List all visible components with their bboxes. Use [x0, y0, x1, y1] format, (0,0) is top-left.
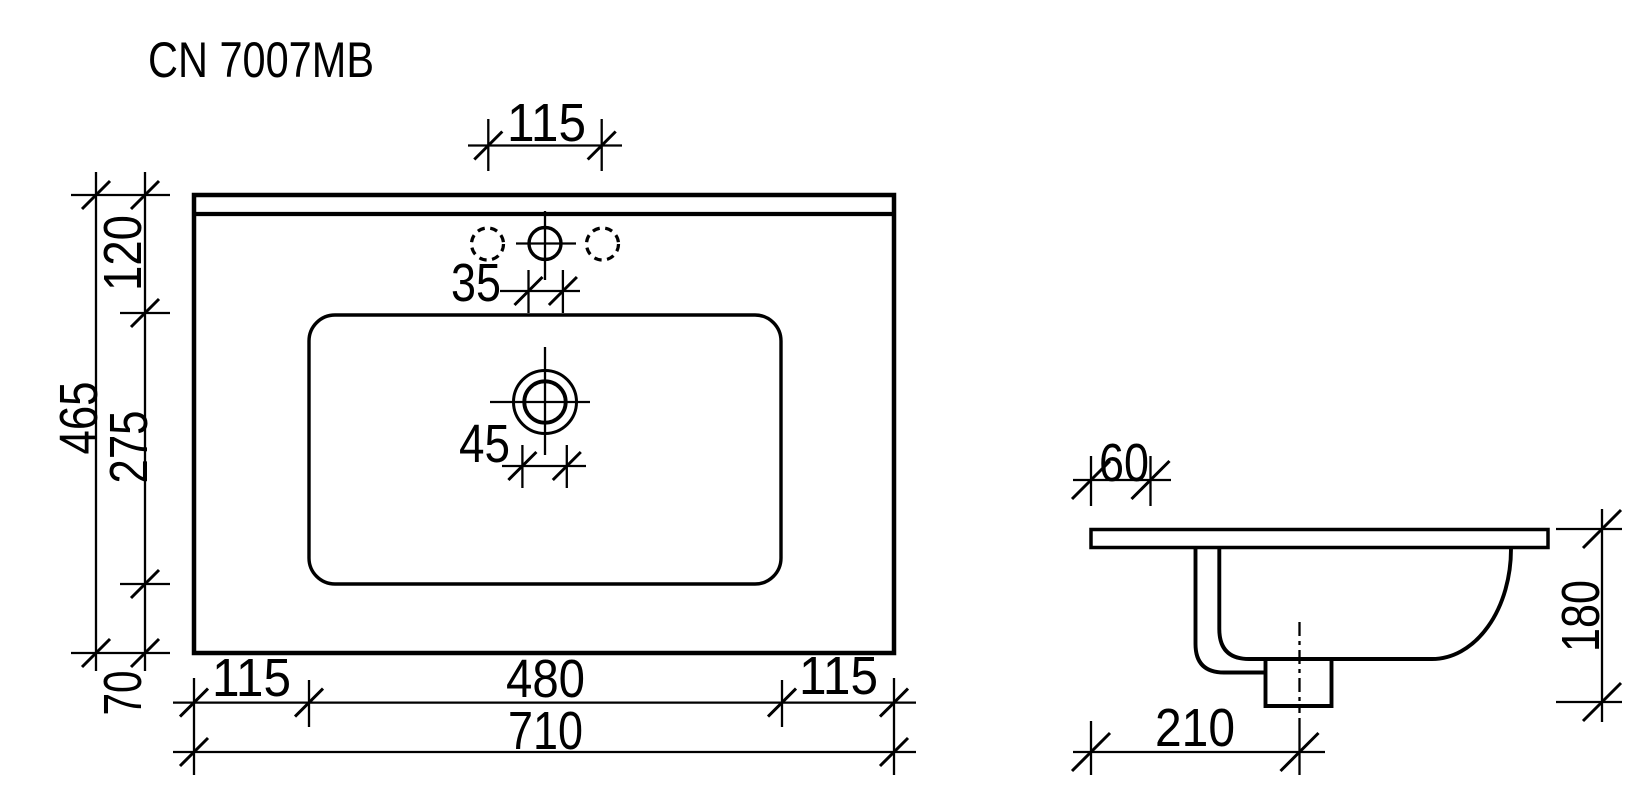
dim 35 right tick	[562, 270, 564, 313]
extension line basin top	[120, 312, 170, 314]
left dim line 465	[95, 172, 97, 671]
svg-text:70: 70	[93, 671, 153, 716]
dim 35 left tick	[527, 270, 529, 313]
svg-text:180: 180	[1551, 580, 1611, 652]
svg-text:210: 210	[1155, 698, 1235, 758]
bottom dim row2 line	[173, 751, 916, 753]
bottom ext right	[893, 678, 895, 775]
basin rounded rect	[309, 315, 781, 584]
drain crosshair horizontal	[490, 401, 590, 403]
faucet crosshair vertical	[544, 211, 546, 280]
dim 60 right tick	[1149, 456, 1151, 506]
dim 210 left ext	[1090, 721, 1092, 775]
dim 210 right tick	[1281, 733, 1319, 771]
dim 210 right ext	[1298, 718, 1300, 775]
svg-text:45: 45	[459, 414, 510, 474]
dim 180 line	[1601, 509, 1603, 722]
row1 tick basin-left	[295, 689, 323, 717]
bottom ext left	[193, 678, 195, 775]
dim 180 ext bottom	[1556, 701, 1622, 703]
side slab	[1091, 530, 1548, 548]
svg-text:35: 35	[451, 253, 501, 313]
plan outline	[194, 195, 894, 653]
tick 70 bottom	[131, 639, 159, 667]
dim 210 line	[1073, 751, 1325, 753]
faucet crosshair horizontal	[516, 242, 576, 244]
row1 tick basin-right	[768, 689, 796, 717]
left dim line 120/275/70	[144, 172, 146, 671]
dim 210 left tick	[1072, 733, 1110, 771]
svg-text:60: 60	[1099, 433, 1149, 493]
side bowl outer wall	[1196, 549, 1266, 673]
faucet hole center	[529, 228, 561, 260]
side drain centerline	[1298, 622, 1300, 713]
svg-text:480: 480	[506, 649, 585, 709]
dim 115 top line	[468, 144, 622, 146]
tick 465 top	[82, 181, 110, 209]
dim 45 right tick	[566, 445, 568, 488]
dim 115 top right tick	[601, 119, 603, 171]
drain crosshair vertical	[544, 347, 546, 455]
dim 115 top left tick	[487, 119, 489, 171]
tick 120 top	[131, 181, 159, 209]
drain outer circle	[514, 371, 577, 434]
dim 180 ext top	[1556, 528, 1622, 530]
faucet hole left dashed	[472, 228, 504, 260]
svg-text:CN 7007MB: CN 7007MB	[148, 32, 374, 88]
faucet hole right dashed	[587, 228, 619, 260]
tick 275 bottom	[131, 570, 159, 598]
svg-text:115: 115	[799, 646, 878, 706]
bottom ext basin-left	[308, 680, 310, 727]
extension line top	[71, 194, 170, 196]
bottom ext basin-right	[781, 680, 783, 727]
dim 180 tick top	[1583, 510, 1621, 548]
svg-text:710: 710	[508, 701, 583, 761]
side drain box	[1266, 659, 1332, 706]
side bowl inner wall and bottom	[1219, 549, 1432, 659]
svg-text:115: 115	[507, 93, 586, 153]
dim 45 line	[502, 465, 586, 467]
side bowl right wall	[1432, 549, 1511, 659]
tick 120 bottom	[131, 299, 159, 327]
dim 60 line	[1073, 479, 1171, 481]
drain inner circle	[524, 381, 565, 422]
tick 465 bottom	[82, 639, 110, 667]
row1 tick left	[180, 689, 208, 717]
bottom dim row1 line	[173, 701, 916, 703]
plan back edge line	[194, 212, 894, 216]
row2 tick right	[880, 738, 908, 766]
dim 45 left tick	[521, 445, 523, 488]
dim 180 tick bottom	[1583, 683, 1621, 721]
dim 35 line	[500, 290, 580, 292]
extension line bottom	[71, 652, 170, 654]
row1 tick right	[880, 689, 908, 717]
extension line basin bottom	[120, 583, 170, 585]
svg-text:115: 115	[212, 648, 291, 708]
svg-text:275: 275	[99, 411, 159, 484]
svg-text:120: 120	[93, 215, 153, 291]
dim 60 left tick	[1090, 456, 1092, 506]
row2 tick left	[180, 738, 208, 766]
